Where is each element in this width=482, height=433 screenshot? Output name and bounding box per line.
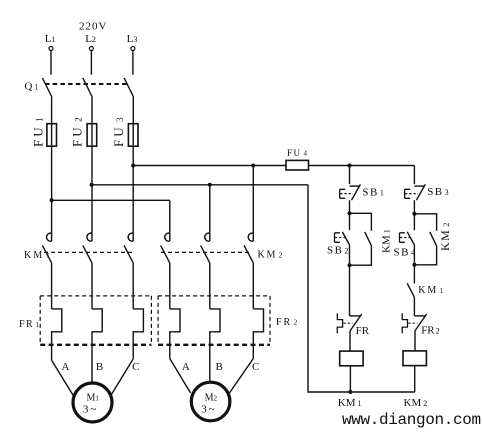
- svg-text:SB2: SB2: [327, 245, 350, 257]
- svg-text:M2: M2: [205, 393, 218, 404]
- svg-text:C: C: [132, 361, 139, 373]
- svg-text:FU2: FU2: [70, 114, 85, 147]
- svg-text:KM2: KM2: [258, 250, 285, 261]
- svg-text:3~: 3~: [83, 404, 98, 416]
- svg-text:3~: 3~: [201, 404, 216, 416]
- svg-text:KM1: KM1: [338, 397, 362, 409]
- svg-text:KM1: KM1: [418, 285, 445, 296]
- svg-text:SB3: SB3: [427, 186, 450, 198]
- svg-text:A: A: [62, 361, 70, 373]
- svg-text:FR2: FR2: [276, 317, 299, 328]
- svg-text:B: B: [216, 361, 223, 373]
- svg-text:220V: 220V: [79, 21, 107, 33]
- svg-text:L3: L3: [127, 33, 138, 45]
- svg-text:L2: L2: [85, 33, 96, 45]
- svg-text:KM2: KM2: [404, 397, 428, 409]
- svg-text:KM1: KM1: [381, 229, 393, 253]
- svg-text:L1: L1: [45, 33, 56, 45]
- svg-text:FR2: FR2: [421, 325, 439, 337]
- svg-text:FR: FR: [356, 325, 370, 337]
- svg-text:SB1: SB1: [362, 187, 385, 199]
- svg-text:FU1: FU1: [31, 114, 46, 147]
- svg-text:Q1: Q1: [24, 81, 38, 93]
- svg-text:KM1: KM1: [24, 250, 52, 261]
- svg-text:A: A: [182, 361, 190, 373]
- svg-text:M1: M1: [86, 393, 99, 404]
- svg-text:FR1: FR1: [19, 319, 41, 330]
- svg-text:SB4: SB4: [394, 246, 417, 258]
- svg-text:FU4: FU4: [287, 148, 309, 158]
- svg-text:C: C: [252, 361, 259, 373]
- svg-text:www.diangon.com: www.diangon.com: [342, 411, 481, 429]
- svg-text:KM2: KM2: [438, 221, 452, 251]
- svg-text:FU3: FU3: [111, 114, 126, 147]
- svg-text:B: B: [96, 361, 103, 373]
